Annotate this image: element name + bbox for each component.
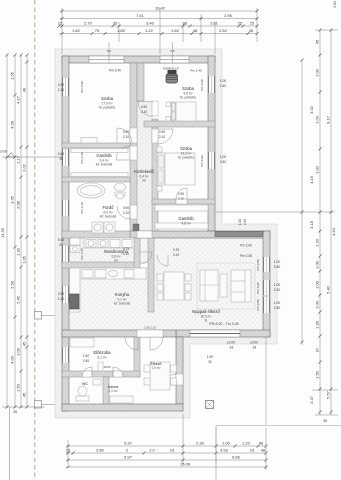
corridor radiator xyxy=(133,224,139,231)
svg-text:0.90: 0.90 xyxy=(178,192,184,196)
window: south living sliding door xyxy=(190,330,240,337)
wall: szoba A / gardrob xyxy=(62,143,130,148)
szoba B nightstands xyxy=(166,102,171,107)
svg-text:1.62: 1.62 xyxy=(171,28,180,33)
door: corridor to furdo xyxy=(117,206,130,219)
svg-text:2.40: 2.40 xyxy=(274,288,281,292)
window: top wall szoba A xyxy=(89,56,124,63)
svg-text:kő: kő xyxy=(114,259,118,263)
svg-text:2.10: 2.10 xyxy=(173,253,179,257)
door: corridor to gardrob D xyxy=(116,146,130,160)
svg-text:4.54: 4.54 xyxy=(331,227,336,236)
svg-text:5.57: 5.57 xyxy=(326,390,331,399)
svg-text:1.30: 1.30 xyxy=(58,88,64,92)
svg-text:1.22: 1.22 xyxy=(145,28,154,33)
svg-text:0.75: 0.75 xyxy=(123,247,129,251)
dim line 10.42 xyxy=(60,10,257,12)
window: right wall szoba C xyxy=(208,152,215,169)
svg-text:2: 2 xyxy=(126,448,129,453)
site: property boundary dashed line xyxy=(34,0,36,480)
konyha counter top row xyxy=(80,268,146,279)
svg-text:1.20: 1.20 xyxy=(58,297,64,301)
svg-text:2.30: 2.30 xyxy=(196,441,205,446)
svg-text:Pm 1.20: Pm 1.20 xyxy=(80,152,84,164)
extension lines top xyxy=(61,8,63,54)
wall: szoba C / gardrob 2 xyxy=(152,199,215,204)
svg-text:15.06: 15.06 xyxy=(180,462,191,467)
window size note north glazing xyxy=(238,219,247,225)
svg-text:1.05: 1.05 xyxy=(22,255,27,264)
reference line right upper xyxy=(216,211,336,213)
svg-text:35: 35 xyxy=(113,21,118,26)
wc toilet xyxy=(76,396,89,401)
svg-text:15: 15 xyxy=(58,21,63,26)
dim ticks bottom xyxy=(67,445,268,448)
floor hatch: living/kitchen/dining open area xyxy=(69,238,263,330)
wall: entrance block bottom xyxy=(62,404,183,411)
porch post xyxy=(206,401,214,409)
wall: eloszoba / wc+kamra xyxy=(62,371,140,377)
svg-text:9.17: 9.17 xyxy=(326,115,331,124)
szoba C bed xyxy=(157,153,195,185)
reference line to entrance axis xyxy=(2,156,62,158)
svg-text:Pm 0.00: Pm 0.00 xyxy=(256,282,260,294)
svg-text:45: 45 xyxy=(22,392,27,397)
svg-text:2.10: 2.10 xyxy=(123,211,129,215)
svg-text:0.90: 0.90 xyxy=(123,130,129,134)
svg-text:4.00: 4.00 xyxy=(10,355,15,364)
gap: corridor to living xyxy=(137,231,152,238)
svg-text:0.75: 0.75 xyxy=(173,248,179,252)
konyha stove dark xyxy=(70,294,80,309)
svg-text:36: 36 xyxy=(183,21,188,26)
svg-text:1.00: 1.00 xyxy=(315,280,320,289)
svg-text:7.41: 7.41 xyxy=(136,13,145,18)
svg-text:4.17: 4.17 xyxy=(16,95,21,104)
svg-text:2.40: 2.40 xyxy=(220,84,227,88)
door: eloszoba to wc xyxy=(82,367,92,377)
wall: kitchen / dining divider xyxy=(148,238,154,312)
door: kitchen passage xyxy=(157,255,168,266)
svg-text:6,1 m²: 6,1 m² xyxy=(97,356,106,360)
svg-text:2.58: 2.58 xyxy=(10,280,15,289)
svg-text:Nappali étkező: Nappali étkező xyxy=(192,309,220,314)
svg-text:48: 48 xyxy=(261,448,266,453)
gardrob 2 shelves xyxy=(155,205,208,211)
svg-text:1.00: 1.00 xyxy=(315,260,320,269)
svg-text:1.00: 1.00 xyxy=(220,155,227,159)
wall: exterior top xyxy=(62,56,215,63)
svg-text:Fürdő: Fürdő xyxy=(103,205,115,210)
neighbour slab top edge xyxy=(216,425,341,427)
svg-text:2.10: 2.10 xyxy=(141,110,147,114)
svg-text:2.10: 2.10 xyxy=(178,197,184,201)
wall: entrance block right xyxy=(176,337,183,404)
svg-text:10.42: 10.42 xyxy=(155,6,166,11)
wall: mosokonyha right xyxy=(134,238,140,268)
window: right wall szoba B xyxy=(208,76,215,93)
svg-text:1.00: 1.00 xyxy=(222,441,231,446)
svg-text:2.40: 2.40 xyxy=(83,359,89,363)
svg-text:4.54: 4.54 xyxy=(333,1,337,8)
svg-text:±0.00: ±0.00 xyxy=(250,341,258,345)
gap: wc door xyxy=(82,371,92,377)
svg-text:2.40: 2.40 xyxy=(274,306,281,310)
svg-text:2.40: 2.40 xyxy=(220,160,227,164)
eloszoba cabinet xyxy=(70,338,94,347)
svg-text:KANDALLÓ: KANDALLÓ xyxy=(163,66,180,71)
wall: wc / kamra divider xyxy=(103,377,109,404)
svg-text:1.50 2.10: 1.50 2.10 xyxy=(144,326,156,330)
door: szoba A to corridor xyxy=(117,128,132,143)
gap: entrance door in block right wall xyxy=(176,374,183,385)
door: mosokonyha xyxy=(140,252,152,264)
wall: corridor right xyxy=(152,119,158,231)
svg-text:Pm 2.40: Pm 2.40 xyxy=(109,69,121,73)
dim line row3 xyxy=(59,25,257,27)
window: north living room glazing (dark band) xyxy=(215,232,263,237)
gap: kamra door xyxy=(113,371,123,377)
window: left wall szoba A xyxy=(62,78,69,96)
svg-text:5.40: 5.40 xyxy=(58,238,64,242)
szoba C nightstands xyxy=(157,147,162,152)
right chains top end line xyxy=(315,29,338,31)
floor hatch: corridor xyxy=(137,101,152,231)
wc sink xyxy=(93,379,101,385)
svg-text:40: 40 xyxy=(22,87,27,92)
window: right living 3 xyxy=(263,297,270,313)
svg-text:48: 48 xyxy=(259,441,264,446)
door: szoba C to gardrob 2 xyxy=(176,188,187,199)
svg-text:2.10: 2.10 xyxy=(123,135,129,139)
svg-text:1.50: 1.50 xyxy=(83,354,89,358)
rotated pm labels on left wall xyxy=(80,79,260,311)
mosokonyha counter xyxy=(84,238,134,248)
gap: furdo door xyxy=(130,205,137,219)
site: left line below chains xyxy=(9,407,11,480)
svg-text:3.18: 3.18 xyxy=(309,220,314,229)
svg-text:4.16: 4.16 xyxy=(309,175,314,184)
svg-text:15: 15 xyxy=(170,448,175,453)
gap: gardrob D door xyxy=(130,146,137,160)
wall: furdo / mosokonyha xyxy=(62,231,130,238)
svg-text:7,0 m²: 7,0 m² xyxy=(151,366,160,370)
wall: eloszoba / etkezo divider xyxy=(134,337,140,377)
svg-text:2.45: 2.45 xyxy=(16,295,21,304)
wall: south wall kitchen/dining (interior) xyxy=(62,330,176,337)
furdo sink xyxy=(115,183,126,191)
svg-text:8 8: 8 8 xyxy=(107,49,112,53)
svg-text:15: 15 xyxy=(250,448,255,453)
svg-text:0.90: 0.90 xyxy=(141,105,147,109)
site: boundary marker box 2 xyxy=(35,401,42,409)
svg-text:kő: kő xyxy=(142,179,146,183)
svg-text:45: 45 xyxy=(22,341,27,346)
svg-text:25: 25 xyxy=(238,21,243,26)
svg-text:1.30: 1.30 xyxy=(16,247,21,256)
svg-text:fa: parketta: fa: parketta xyxy=(180,96,196,100)
svg-text:45: 45 xyxy=(315,39,320,44)
svg-text:Közlekedő: Közlekedő xyxy=(134,169,154,174)
gap: szoba C door xyxy=(152,129,158,143)
svg-text:1.02: 1.02 xyxy=(22,163,27,172)
site: fence line to building 1 xyxy=(42,314,63,316)
svg-text:1.05: 1.05 xyxy=(10,71,15,80)
wall: exterior left xyxy=(62,56,69,411)
svg-text:1.00: 1.00 xyxy=(315,165,320,174)
svg-text:3.35: 3.35 xyxy=(10,195,15,204)
door: etkezo lower from porch xyxy=(165,374,176,385)
gap: szoba A door xyxy=(130,128,137,143)
wall: gardrob / furdo xyxy=(62,177,130,182)
window: left wall furdo xyxy=(62,200,69,216)
svg-text:2.40: 2.40 xyxy=(243,219,247,225)
living sofa 1 xyxy=(200,270,218,301)
svg-text:Szoba: Szoba xyxy=(101,96,114,101)
svg-text:1.90: 1.90 xyxy=(207,355,213,359)
svg-text:Pm 0.90: Pm 0.90 xyxy=(80,81,84,93)
szoba B bed xyxy=(171,102,196,121)
svg-text:2.52: 2.52 xyxy=(219,28,228,33)
svg-text:1.20: 1.20 xyxy=(315,238,320,247)
svg-text:0.90: 0.90 xyxy=(123,206,129,210)
svg-text:2.96: 2.96 xyxy=(224,13,233,18)
svg-text:3.40: 3.40 xyxy=(146,21,155,26)
svg-text:2,1 m²: 2,1 m² xyxy=(108,389,117,393)
living sofa 2 xyxy=(231,270,251,302)
building interior base (white) xyxy=(62,56,270,411)
svg-text:2.61: 2.61 xyxy=(210,21,219,26)
svg-text:2.08: 2.08 xyxy=(16,200,21,209)
window: left wall konyha xyxy=(62,286,69,303)
svg-text:1.00: 1.00 xyxy=(274,283,281,287)
svg-text:kő: burkolat: kő: burkolat xyxy=(100,215,117,219)
svg-text:16/30: 16/30 xyxy=(104,365,111,369)
neighbour slab left edge xyxy=(215,426,217,480)
svg-text:97: 97 xyxy=(315,347,320,352)
svg-text:WC: WC xyxy=(82,382,88,386)
svg-text:1.00: 1.00 xyxy=(274,301,281,305)
kamra shelves xyxy=(110,396,133,403)
svg-text:1.00: 1.00 xyxy=(274,260,281,264)
svg-text:2.70: 2.70 xyxy=(84,21,93,26)
svg-text:15: 15 xyxy=(66,448,71,453)
svg-text:-18: -18 xyxy=(252,346,257,350)
svg-text:1.00: 1.00 xyxy=(315,115,320,124)
svg-text:5.40: 5.40 xyxy=(326,285,331,294)
svg-text:Pm 1.20: Pm 1.20 xyxy=(80,202,84,214)
svg-text:Pm 0.00: Pm 0.00 xyxy=(256,299,260,311)
etkezo lower table xyxy=(150,362,170,390)
window: right living 2 xyxy=(263,280,270,295)
svg-text:Pm 2.40: Pm 2.40 xyxy=(190,69,202,73)
svg-text:Szoba: Szoba xyxy=(180,146,193,151)
living coffee table xyxy=(220,274,227,297)
svg-text:35: 35 xyxy=(13,410,17,414)
svg-text:-18: -18 xyxy=(229,346,234,350)
svg-text:fa: parketta: fa: parketta xyxy=(178,156,194,160)
svg-text:3.47: 3.47 xyxy=(309,395,314,404)
svg-text:Előszoba: Előszoba xyxy=(93,350,111,355)
extension lines bottom xyxy=(67,440,69,465)
svg-text:5.97: 5.97 xyxy=(124,455,133,460)
door: corridor top to szoba B xyxy=(138,102,153,117)
svg-text:Pm 2.08: Pm 2.08 xyxy=(240,254,252,258)
svg-text:Pm 0.90: Pm 0.90 xyxy=(200,155,204,167)
svg-text:1.17: 1.17 xyxy=(16,155,21,164)
dim line row4 xyxy=(59,33,257,35)
svg-text:1.00: 1.00 xyxy=(220,79,227,83)
window: left wall eloszoba xyxy=(62,347,69,363)
dining chairs xyxy=(157,274,163,281)
svg-text:±0.00: ±0.00 xyxy=(0,150,7,154)
right chains bottom end line xyxy=(315,414,338,416)
window: top wall szoba B xyxy=(160,56,189,63)
gap: konyha door wall xyxy=(140,262,148,268)
wall: exterior right upper xyxy=(208,56,215,231)
svg-text:fa: parketta: fa: parketta xyxy=(99,106,115,110)
svg-text:14.35: 14.35 xyxy=(0,227,5,238)
gardrob D shelves bottom xyxy=(71,173,128,177)
window: right living 1 xyxy=(263,257,270,272)
gap: mosokonyha door xyxy=(139,251,141,253)
eaves outline around building xyxy=(55,49,277,418)
svg-text:45: 45 xyxy=(249,28,254,33)
svg-text:1.80: 1.80 xyxy=(117,28,126,33)
dim vertical lines right xyxy=(301,60,303,345)
gap: gardrob 2 door xyxy=(176,199,187,204)
svg-text:1.00: 1.00 xyxy=(315,300,320,309)
terrace right edge xyxy=(265,337,267,425)
dim ticks top xyxy=(61,10,259,13)
eloszoba steps xyxy=(98,362,103,371)
svg-text:2.90: 2.90 xyxy=(58,83,64,87)
svg-text:FM 3.00 - Tm 3.00: FM 3.00 - Tm 3.00 xyxy=(209,322,239,326)
wall: mosokonyha / konyha xyxy=(62,262,140,268)
svg-text:8 8: 8 8 xyxy=(170,49,175,53)
gap: double door dining-eloszoba xyxy=(137,330,163,337)
gardrob D shelves top xyxy=(71,149,128,153)
svg-text:30: 30 xyxy=(208,360,212,364)
wall: exterior right of living room xyxy=(263,231,270,337)
living rug xyxy=(197,263,255,309)
svg-text:fa: fa xyxy=(205,319,208,323)
svg-text:25: 25 xyxy=(250,21,255,26)
door: dining double door to eloszoba xyxy=(125,337,138,350)
svg-text:Pm 0.00: Pm 0.00 xyxy=(256,259,260,271)
svg-text:Pm 1.20: Pm 1.20 xyxy=(80,248,84,260)
site: fence line to building 2 xyxy=(42,403,63,405)
svg-text:2.90: 2.90 xyxy=(58,292,64,296)
kandallo in szoba B xyxy=(163,66,180,84)
szoba A cabinet xyxy=(81,138,97,144)
gap: szoba B door from corridor xyxy=(152,101,158,116)
svg-text:Pm 0.90: Pm 0.90 xyxy=(200,79,204,91)
dim line 7.41 / 2.96 xyxy=(60,18,257,20)
svg-text:Gardrób: Gardrób xyxy=(178,216,194,221)
door: eloszoba to kamra xyxy=(113,367,123,377)
svg-text:4.28: 4.28 xyxy=(10,120,15,129)
site: boundary marker box 1 xyxy=(35,312,42,320)
dim lines bottom xyxy=(66,445,266,447)
svg-text:Gardrób: Gardrób xyxy=(96,153,112,158)
furdo bathtub xyxy=(77,183,105,198)
svg-text:4,8 m²: 4,8 m² xyxy=(181,222,190,226)
svg-text:2.10: 2.10 xyxy=(159,135,165,139)
svg-text:30: 30 xyxy=(59,157,63,161)
wall: between szoba B and szoba C xyxy=(144,121,215,127)
dim ticks right xyxy=(301,59,304,344)
svg-text:48: 48 xyxy=(193,28,198,33)
wall: corridor spine left xyxy=(130,63,137,231)
svg-text:2.10: 2.10 xyxy=(123,252,129,256)
svg-text:1.00: 1.00 xyxy=(238,219,242,225)
svg-text:1.30: 1.30 xyxy=(315,320,320,329)
mosokonyha left appliances xyxy=(70,238,80,245)
svg-text:Szoba: Szoba xyxy=(182,86,195,91)
svg-text:35: 35 xyxy=(323,419,327,423)
svg-text:1.00: 1.00 xyxy=(315,68,320,77)
window: left wall gardrob xyxy=(62,149,69,166)
svg-text:2.40: 2.40 xyxy=(274,265,281,269)
bottom end line left chains xyxy=(2,406,45,408)
svg-text:6.66: 6.66 xyxy=(232,455,241,460)
door: corridor to szoba C xyxy=(158,129,173,144)
svg-text:1.50: 1.50 xyxy=(16,383,21,392)
svg-text:2.0: 2.0 xyxy=(149,448,155,453)
svg-text:Pm 2.00: Pm 2.00 xyxy=(240,244,252,248)
svg-text:20: 20 xyxy=(59,243,63,247)
wall: upper thick part between szoba A and B xyxy=(137,63,144,101)
wall: north wall of living room + interior band xyxy=(130,231,270,238)
svg-text:4.53: 4.53 xyxy=(220,448,229,453)
svg-text:kő: burkolat: kő: burkolat xyxy=(114,302,131,306)
konyha counter left column xyxy=(70,268,81,312)
svg-text:1.62: 1.62 xyxy=(72,28,81,33)
furdo washer and dryer xyxy=(92,222,103,233)
svg-text:2.80: 2.80 xyxy=(96,448,105,453)
svg-text:70: 70 xyxy=(95,28,100,33)
wall: south wall of living room xyxy=(176,330,270,337)
svg-text:Konyha: Konyha xyxy=(115,292,130,297)
dim ticks left xyxy=(6,54,9,409)
svg-text:1.00: 1.00 xyxy=(16,347,21,356)
svg-text:1.20: 1.20 xyxy=(242,441,251,446)
svg-text:kő: burkolat: kő: burkolat xyxy=(96,163,113,167)
furdo toilet xyxy=(115,192,125,196)
svg-text:5.37: 5.37 xyxy=(124,441,133,446)
svg-text:0.60: 0.60 xyxy=(58,152,64,156)
svg-text:1.50: 1.50 xyxy=(315,370,320,379)
dim vertical lines left xyxy=(6,55,8,407)
svg-text:0.90: 0.90 xyxy=(159,130,165,134)
window: left wall mosokonyha xyxy=(62,246,69,262)
reference line right lower xyxy=(312,389,338,391)
svg-text:±0.00: ±0.00 xyxy=(227,341,235,345)
svg-text:3.02: 3.02 xyxy=(309,105,314,114)
dining table xyxy=(164,272,184,300)
